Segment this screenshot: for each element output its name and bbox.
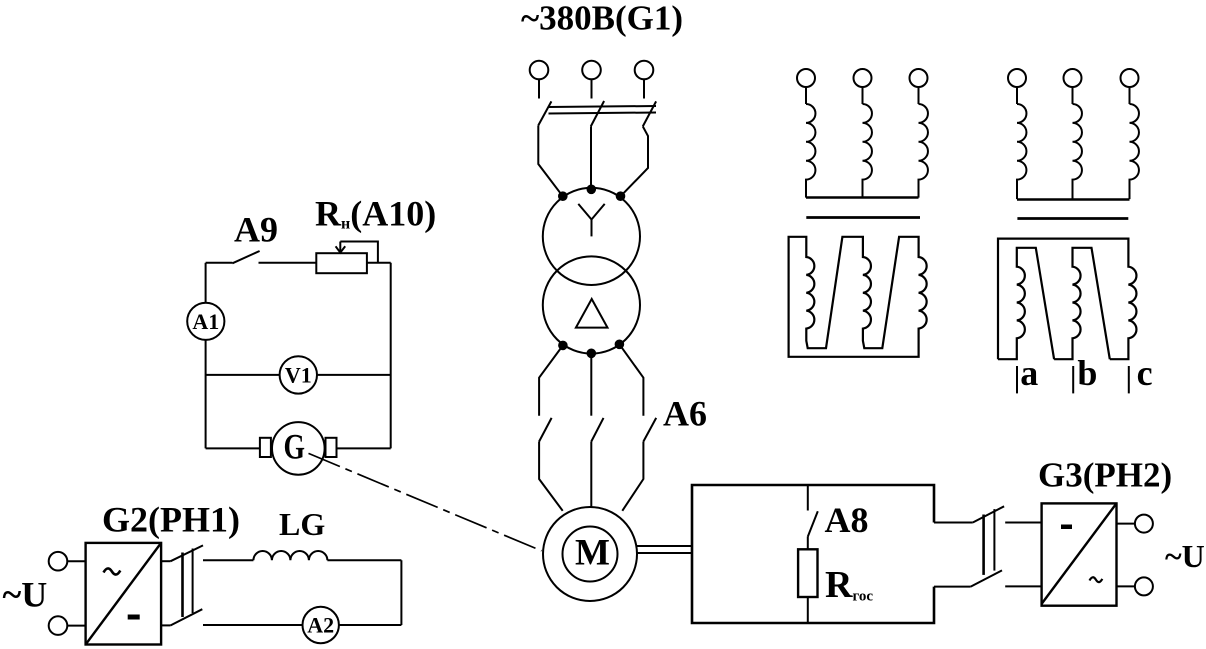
rheostat Rn(A10) body (316, 253, 367, 273)
wire terminal to G2 box upper (67, 560, 85, 562)
star winding 2 coil 2 (1073, 104, 1082, 199)
wire field right vertical (400, 560, 402, 625)
generator G circle (272, 422, 325, 475)
ammeter A2 (303, 607, 339, 643)
star winding diagram 1 terminal 1 (797, 69, 815, 104)
G2 dc minus symbol (128, 615, 140, 620)
terminal G3 upper (1135, 515, 1153, 533)
star winding 1 coil 2 (863, 104, 872, 198)
terminal tick b (1072, 366, 1074, 393)
voltmeter V1 (280, 356, 317, 393)
wire middle left (206, 374, 280, 376)
svg-text:А8: А8 (825, 500, 869, 540)
svg-text:A6: A6 (663, 394, 707, 434)
delta winding 2 phase b (1054, 248, 1110, 359)
terminal L1 (530, 61, 549, 99)
wire secondary phase3 lower to motor (622, 442, 643, 511)
node dot primary 2 (588, 186, 596, 194)
wire top to rheostat (259, 262, 317, 264)
svg-text:Rгос: Rгос (825, 564, 873, 606)
switch Q1 three-phase bar (549, 106, 657, 114)
svg-text:~U: ~U (1165, 538, 1205, 574)
terminal G2 upper (49, 552, 68, 571)
motor armature wire upper (636, 545, 692, 547)
star winding 2 coil 3 (1130, 104, 1139, 199)
wire resistor to bottom (807, 597, 809, 623)
wire top left segment (206, 262, 233, 264)
svg-text:G2(РН1): G2(РН1) (102, 500, 240, 540)
G3 ac tilde symbol (1090, 577, 1103, 582)
wire inductor to right (327, 559, 401, 561)
wire A8 blade to resistor (807, 537, 809, 550)
connector X1 bar 1 (181, 553, 184, 618)
wire box stub upper right (934, 522, 973, 524)
core separator line 2 (1017, 217, 1128, 220)
switch A9 blade (232, 251, 259, 263)
wire phase2 to transformer (590, 126, 592, 189)
generator G brush left (260, 438, 271, 457)
wire bottom left (206, 447, 260, 449)
delta winding diagram 2 top bus and edges (998, 239, 1136, 360)
shaft coupling dash-dot line G to M (309, 453, 542, 550)
motor M1 outer circle (543, 507, 637, 601)
star winding diagram 2 terminal 1 (1008, 69, 1026, 104)
svg-text:LG: LG (279, 506, 325, 542)
svg-text:G3(РН2): G3(РН2) (1038, 456, 1172, 495)
wire secondary phase1 lower to motor (539, 442, 563, 511)
connector X1 slant lower (171, 609, 203, 625)
switch A6 blade 2 (591, 418, 603, 442)
connector X2 slant upper (973, 506, 1004, 522)
star winding 1 coil 1 (806, 104, 815, 198)
switch Q1 blade 2 (591, 101, 604, 126)
star winding diagram 1 terminal 2 (854, 69, 872, 104)
star winding 2 coil 1 (1017, 104, 1026, 199)
generator G brush right (326, 438, 337, 457)
wire secondary phase2 lower to motor (590, 442, 592, 508)
wire field bottom left (203, 624, 303, 626)
wire left vertical upper (205, 263, 207, 303)
wire middle right (317, 374, 391, 376)
connector X1 wire lower (161, 624, 171, 626)
rheostat wiper arrow (336, 242, 346, 253)
node dot primary 3 (617, 192, 625, 200)
connector X1 slant upper (171, 545, 203, 561)
wire secondary phase1 upper (539, 345, 563, 415)
switch Q1 blade 1 (538, 101, 551, 125)
terminal G3 lower (1135, 577, 1153, 595)
terminal tick a (1016, 366, 1018, 393)
wire rheostat to right corner (367, 262, 391, 264)
svg-text:a: a (1020, 353, 1038, 393)
motor armature wire lower (637, 552, 692, 554)
svg-text:А9: А9 (234, 210, 278, 250)
connector X1 wire upper (161, 560, 171, 562)
inductor LG (253, 551, 327, 560)
svg-text:V1: V1 (285, 362, 312, 387)
svg-text:c: c (1137, 353, 1153, 393)
switch A6 blade 1 (539, 418, 552, 442)
node dot secondary 2 (588, 350, 596, 358)
wire X2 to G3 lower (1005, 585, 1041, 587)
connector X2 bar 1 (982, 515, 985, 575)
wire secondary phase3 upper (619, 344, 643, 415)
svg-text:А2: А2 (307, 613, 334, 638)
wire G3 to terminal upper (1117, 523, 1135, 525)
star winding 2 neutral bus (1017, 198, 1130, 200)
ammeter A1 (187, 303, 224, 340)
transformer T1 primary circle (543, 188, 640, 285)
core separator line 1 (806, 216, 920, 219)
star symbol Y (578, 204, 604, 237)
switch A6 blade 3 (643, 418, 656, 442)
star winding diagram 2 terminal 3 (1121, 69, 1139, 104)
resistor Rgos body (798, 549, 817, 597)
G3 dc minus symbol (1061, 525, 1072, 530)
wire secondary phase2 upper (590, 353, 592, 415)
star winding 1 neutral bus (806, 196, 919, 198)
svg-text:~U: ~U (3, 575, 48, 615)
star winding 1 coil 3 (919, 104, 928, 198)
node dot secondary 1 (559, 342, 567, 350)
wire box stub lower right (934, 586, 971, 588)
svg-text:М: М (575, 533, 610, 574)
wire A8 branch top (807, 485, 809, 511)
terminal L3 (635, 61, 654, 99)
terminal tick c (1128, 366, 1130, 393)
node dot secondary 3 (616, 341, 624, 349)
delta symbol (576, 299, 608, 328)
armature box outline (692, 485, 934, 623)
terminal G2 lower (49, 616, 68, 635)
terminal L2 (582, 61, 601, 99)
converter G3(PH2) box (1042, 503, 1117, 605)
G2 ac tilde symbol (104, 568, 121, 574)
transformer T1 secondary circle (543, 256, 640, 353)
wire G3 to terminal lower (1117, 585, 1135, 587)
svg-text:b: b (1077, 353, 1097, 393)
wire left vertical lower (205, 340, 207, 449)
connector X2 slant lower (971, 570, 1002, 586)
delta winding diagram 1 outline (789, 237, 927, 357)
svg-text:~380В(G1): ~380В(G1) (521, 0, 683, 38)
star winding diagram 1 terminal 3 (910, 69, 928, 104)
motor M1 inner circle (563, 527, 618, 582)
converter G2(PH1) box (86, 543, 162, 645)
node dot primary 1 (559, 192, 567, 200)
wire terminal to G2 box lower (67, 625, 85, 627)
rheostat wiper wire (340, 242, 378, 263)
svg-text:Rн(А10): Rн(А10) (315, 194, 436, 234)
star winding diagram 2 terminal 2 (1064, 69, 1082, 104)
wire X2 to G3 upper (1005, 522, 1041, 524)
switch A8 blade (808, 511, 818, 536)
connector X1 bar 2 (192, 549, 194, 614)
wire phase3 to transformer (621, 126, 649, 196)
svg-text:G: G (284, 427, 306, 467)
wire field bottom right (339, 624, 402, 626)
wire bottom right (337, 447, 391, 449)
delta winding 2 phase a (998, 248, 1054, 359)
wire phase1 to transformer (538, 125, 562, 196)
svg-text:А1: А1 (192, 309, 219, 334)
wire X1 to inductor (203, 559, 253, 561)
connector X2 bar 2 (993, 509, 995, 570)
switch Q1 blade 3 (643, 101, 656, 126)
wire right vertical (390, 263, 392, 449)
